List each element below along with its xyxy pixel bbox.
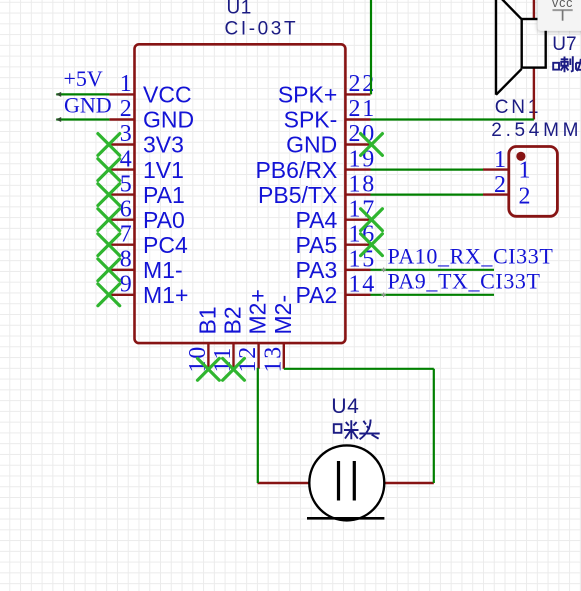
svg-text:3V3: 3V3 [143, 132, 184, 158]
svg-text:GND: GND [143, 107, 194, 133]
svg-text:PA4: PA4 [296, 207, 338, 233]
svg-text:PA0: PA0 [143, 207, 185, 233]
svg-text:1: 1 [120, 71, 134, 97]
svg-text:PA9_TX_CI33T: PA9_TX_CI33T [388, 268, 541, 293]
svg-text:+5V: +5V [64, 66, 103, 91]
svg-text:2: 2 [120, 96, 134, 122]
svg-text:PA3: PA3 [296, 257, 338, 283]
svg-text:M2+: M2+ [245, 289, 271, 334]
svg-text:13: 13 [260, 345, 286, 373]
svg-text:PB5/TX: PB5/TX [258, 182, 337, 208]
svg-text:PA1: PA1 [143, 182, 185, 208]
svg-text:PA10_RX_CI33T: PA10_RX_CI33T [388, 243, 554, 268]
svg-text:2.54MM: 2.54MM [491, 120, 581, 141]
svg-text:GND: GND [286, 132, 337, 158]
svg-text:PA2: PA2 [296, 282, 338, 308]
svg-text:U1: U1 [227, 0, 252, 19]
svg-text:U4: U4 [331, 395, 359, 418]
svg-text:SPK+: SPK+ [278, 82, 337, 108]
svg-text:PA5: PA5 [296, 232, 338, 258]
svg-text:1: 1 [519, 158, 533, 184]
svg-text:vcc: vcc [552, 0, 573, 10]
svg-text:M1-: M1- [143, 257, 183, 283]
svg-text:B2: B2 [220, 306, 246, 334]
svg-text:2: 2 [519, 184, 533, 210]
svg-text:21: 21 [349, 96, 377, 122]
svg-text:PC4: PC4 [143, 232, 188, 258]
svg-text:GND: GND [64, 93, 112, 118]
svg-text:VCC: VCC [143, 82, 192, 108]
svg-text:M1+: M1+ [143, 282, 188, 308]
svg-text:U7: U7 [552, 34, 576, 55]
svg-text:B1: B1 [194, 306, 220, 334]
svg-text:PB6/RX: PB6/RX [255, 157, 337, 183]
svg-text:1V1: 1V1 [143, 157, 184, 183]
svg-text:SPK-: SPK- [284, 107, 338, 133]
svg-text:M2-: M2- [270, 295, 296, 335]
svg-text:CI-03T: CI-03T [225, 18, 299, 39]
